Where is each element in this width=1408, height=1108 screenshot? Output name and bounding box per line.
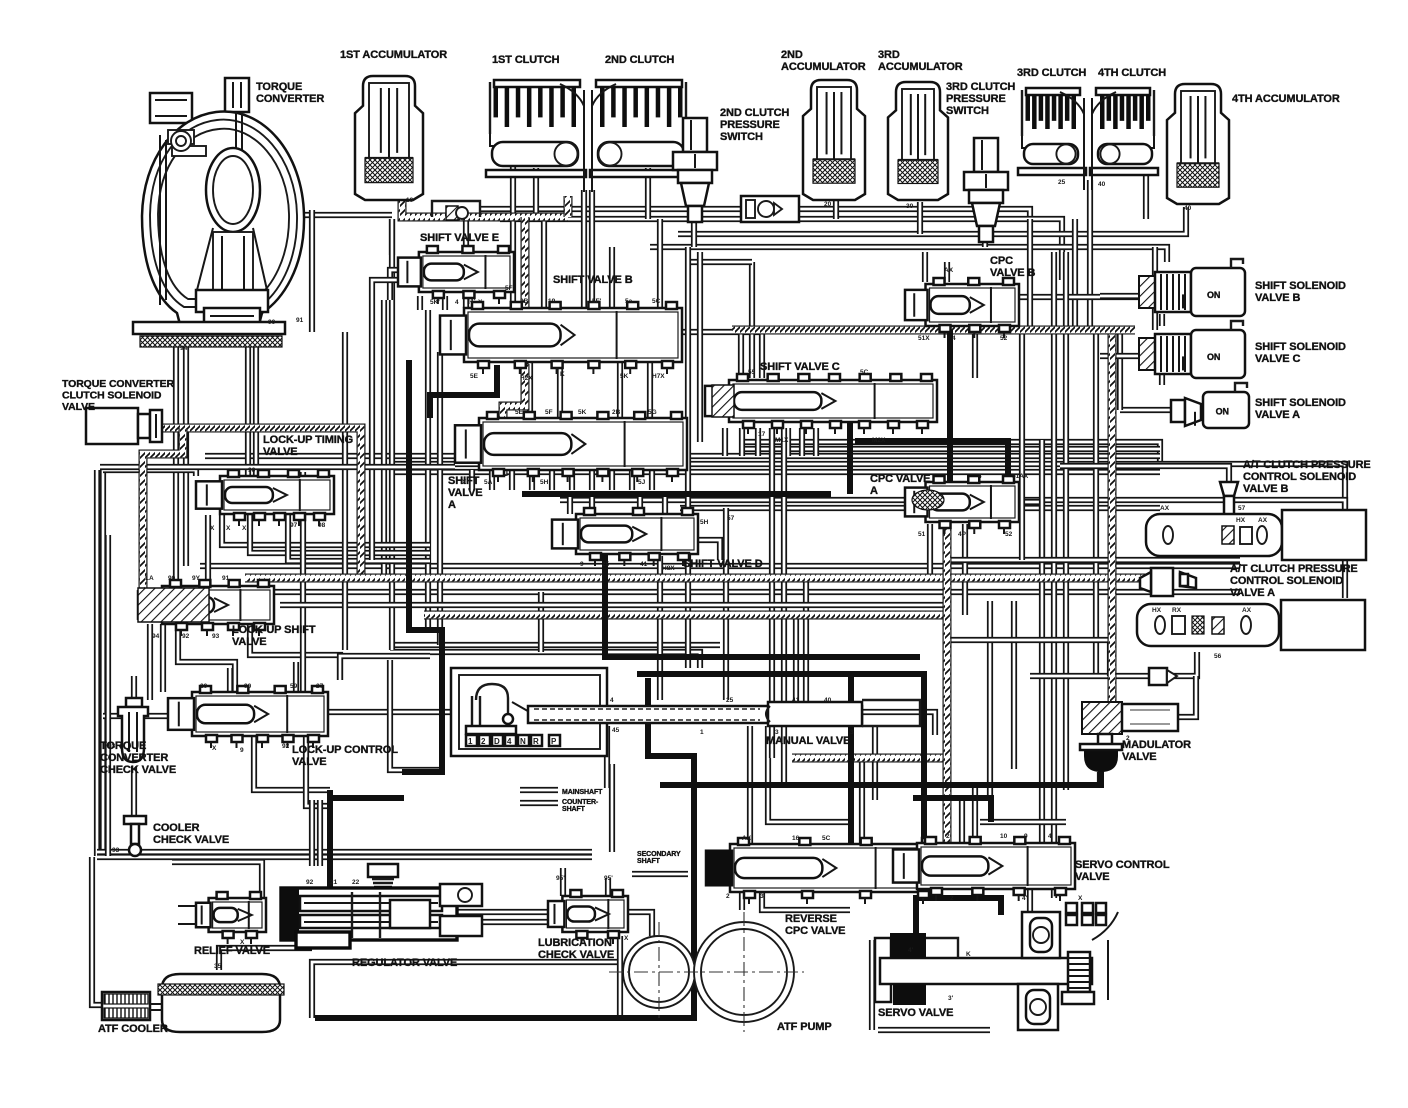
wire mid bundle 6 [680, 505, 1160, 511]
svg-text:17: 17 [758, 431, 766, 438]
wire rev cpc bottom 1 [739, 892, 745, 910]
wire TC down 2 [183, 345, 189, 566]
AT clutch pressure control solenoid valve A connectors [1151, 568, 1173, 596]
svg-text:52: 52 [1005, 531, 1013, 538]
svg-text:5H: 5H [700, 519, 709, 526]
svg-text:HX: HX [1236, 517, 1246, 524]
svg-text:51X: 51X [918, 335, 930, 342]
svg-text:5H: 5H [540, 479, 549, 486]
svg-text:4: 4 [455, 299, 459, 306]
wire lockup loop 4 [250, 624, 340, 680]
svg-text:AX: AX [944, 267, 954, 274]
wire D top stub 3 [637, 494, 643, 514]
wire left drop x384 [381, 300, 387, 580]
connector on solenoid A line [1149, 668, 1167, 685]
wire hatched lower trunk [424, 611, 946, 620]
wire atf pump left vert [617, 936, 623, 1018]
svg-text:R: R [533, 737, 539, 746]
servo control valve [917, 843, 1075, 889]
svg-text:5K: 5K [578, 409, 587, 416]
wire mid bundle 2 [205, 453, 1160, 459]
svg-text:41: 41 [640, 561, 648, 568]
wire lockup timing down 1 [222, 515, 430, 545]
wire servo region v x862 [859, 758, 865, 845]
wire mid y605 [280, 602, 950, 608]
wire D top stub 2 [589, 494, 595, 514]
wire mid bundle 3 [390, 464, 1345, 508]
shift solenoid valve A [1171, 400, 1185, 422]
svg-text:5a: 5a [625, 298, 633, 305]
svg-text:9: 9 [240, 747, 244, 754]
wire hatched solenoid line [160, 428, 361, 578]
wire CPC B bottom [972, 326, 978, 378]
wire sol C x stub [1159, 373, 1165, 385]
AT clutch pressure control solenoid valve A body [1137, 604, 1279, 646]
manual valve shift lever [472, 696, 480, 732]
wire box around manual b [609, 764, 615, 852]
wire CPC B right link [1019, 294, 1139, 300]
svg-text:1: 1 [468, 737, 473, 746]
wire drop x544 [541, 213, 547, 308]
svg-text:AX: AX [742, 835, 752, 842]
wire servo ctl stub 2 [972, 786, 978, 843]
svg-text:AX: AX [1242, 607, 1252, 614]
wire right drop x1075 [1072, 219, 1078, 330]
wire TC check valve down [131, 766, 137, 852]
wire D top stub 4 [662, 494, 668, 514]
lubrication check valve [562, 896, 628, 932]
svg-text:3RD CLUTCH: 3RD CLUTCH [1017, 67, 1086, 79]
svg-text:45: 45 [612, 727, 620, 734]
wire thick C down [847, 415, 853, 494]
svg-text:3': 3' [948, 995, 954, 1002]
wire lube stub 1 [560, 868, 566, 896]
wire thick regulator drop [327, 790, 333, 895]
wire clutch drop to shift valve B [463, 219, 469, 308]
wire center tall x700 [697, 252, 703, 442]
wire thick CPC A feed h [855, 441, 1008, 478]
svg-text:SHIFT VALVE B: SHIFT VALVE B [553, 274, 633, 286]
svg-text:20: 20 [824, 201, 832, 208]
svg-text:16: 16 [792, 835, 800, 842]
wire lube stub 2 [605, 878, 611, 896]
wire hatched solenoid branch [143, 428, 183, 600]
svg-text:40: 40 [1184, 205, 1192, 212]
wire CPC B top stub [944, 262, 950, 282]
wire servo riser x990 [987, 601, 993, 795]
svg-text:4': 4' [1022, 895, 1028, 902]
wire regulator top pair a [309, 800, 315, 866]
svg-text:M2X: M2X [872, 437, 886, 444]
wire top trunk 3 [650, 247, 1167, 262]
torque converter clutch solenoid valve [86, 408, 138, 444]
svg-text:N: N [520, 737, 526, 746]
wire bottom elbow [312, 962, 620, 1018]
svg-text:10: 10 [1000, 833, 1008, 840]
svg-text:25: 25 [602, 561, 610, 568]
wire thick manual to pump bottom [315, 678, 694, 1018]
2nd clutch pressure switch [683, 118, 707, 152]
wire box around manual a [390, 660, 445, 770]
svg-text:96: 96 [248, 467, 256, 474]
svg-text:ON: ON [1207, 290, 1220, 300]
wire C down pair b [781, 428, 787, 785]
wire hatched accumulator line [402, 196, 568, 217]
wire A bottom stub 3 [509, 470, 515, 490]
svg-text:21: 21 [330, 879, 338, 886]
wire rev cpc bottom 2 [762, 892, 850, 910]
wire mid bundle 4 [390, 469, 1160, 475]
wire lockup control down 2 [306, 736, 330, 806]
wire A bottom stub 7 [589, 470, 595, 490]
wire servo riser x1014 [1011, 601, 1017, 769]
wire TC long right drop [342, 332, 348, 650]
svg-text:95': 95' [604, 875, 613, 882]
svg-text:27: 27 [316, 683, 324, 690]
wire TC down 1 [176, 345, 200, 600]
svg-text:19: 19 [406, 197, 414, 204]
wire A bottom stub 5 [549, 470, 555, 490]
wire 2nd accumulator stem [833, 200, 839, 219]
wire thick manual top [637, 674, 924, 843]
wire right mid y560 [950, 557, 1240, 563]
wire funnel B up [1060, 466, 1229, 482]
lock-up timing valve [220, 476, 334, 514]
wire lockup timing down 3 [288, 515, 430, 561]
wire thick y785 [660, 770, 1101, 785]
wire mid bundle 5 [560, 500, 1345, 598]
wire lockup timing long drop [300, 472, 306, 736]
shift solenoid valve B [1139, 276, 1155, 308]
wire manual down 3 [768, 726, 850, 822]
wire servo region v x875 [872, 726, 878, 800]
svg-text:97: 97 [290, 522, 298, 529]
wire CPC A bottom 2 [962, 524, 968, 615]
wire lockup control top 1 [227, 668, 233, 692]
wire C bottom stub 6 [799, 428, 805, 456]
svg-text:AX: AX [1258, 517, 1268, 524]
svg-text:SERVO VALVE: SERVO VALVE [878, 1007, 953, 1019]
torque converter TC [225, 78, 249, 112]
wire check ball to trunk [799, 209, 1030, 219]
svg-text:M1X: M1X [775, 437, 789, 444]
wire lower bundle 1 [200, 563, 1240, 569]
wire hatched to valve A port 5E [503, 364, 525, 476]
wire A bottom stub 2 [489, 470, 495, 490]
wire thick D down [605, 552, 920, 657]
svg-text:4: 4 [1048, 833, 1052, 840]
wire relief elbow [172, 862, 262, 898]
wire right tall x1054 [1051, 252, 1057, 898]
svg-text:57: 57 [1238, 505, 1246, 512]
wire sol C left link [1100, 353, 1139, 359]
wire E left stub [390, 270, 404, 300]
wire A bottom stub 8 [609, 470, 615, 490]
svg-text:5J: 5J [638, 479, 646, 486]
svg-text:20: 20 [200, 683, 208, 690]
wire long left horizontal [100, 464, 455, 470]
wire manual right [862, 712, 935, 735]
wire hatched servo vertical [943, 516, 952, 845]
wire E down left [372, 280, 398, 300]
svg-text:25: 25 [1058, 179, 1066, 186]
svg-text:RX: RX [1172, 607, 1182, 614]
wire hatched manual trunk [792, 754, 947, 763]
wire right drop x1090 [1087, 234, 1093, 330]
wire center tall x688 [685, 247, 691, 668]
wire CPC A bottom 1 [927, 524, 933, 578]
shift solenoid valve C [1139, 338, 1155, 370]
CPC valve A [926, 482, 1019, 522]
wire lockup loop 1 [147, 624, 153, 700]
wire 1st clutch drop [533, 168, 539, 213]
svg-text:51AX: 51AX [1012, 473, 1029, 480]
wire manual up 2 [803, 578, 809, 706]
wire lockup control left link [103, 713, 168, 719]
wire mid y640 right [950, 640, 1110, 676]
wire mid bundle 1b [740, 446, 1160, 452]
svg-text:2: 2 [481, 737, 486, 746]
svg-text:90: 90 [244, 683, 252, 690]
svg-text:4P: 4P [958, 531, 967, 538]
torque converter base plate [133, 322, 285, 334]
svg-text:22: 22 [352, 879, 360, 886]
svg-text:H7X: H7X [652, 373, 665, 380]
wire pan stem [219, 948, 312, 970]
svg-text:HX: HX [1152, 607, 1162, 614]
ATF pump [623, 936, 695, 1008]
wire right drop x1155 [1152, 247, 1158, 330]
svg-text:RELIEF VALVE: RELIEF VALVE [194, 945, 270, 957]
svg-text:93: 93 [112, 847, 120, 854]
cooler check valve [124, 816, 146, 824]
wire B right elbow [682, 332, 762, 378]
wire C bottom stub 7 [813, 428, 819, 456]
wire hatched main trunk [245, 574, 1148, 583]
lock-up control valve [192, 692, 328, 736]
wire A bottom stub 6 [569, 470, 575, 490]
wire servo bottom h [878, 1027, 990, 1033]
svg-text:H2X: H2X [520, 375, 533, 382]
wire C top port 2 [749, 262, 755, 378]
wire drop x660 [657, 219, 663, 308]
wire E bottom stub 2 [442, 296, 448, 310]
modulator valve [1082, 702, 1122, 734]
svg-text:SHIFT VALVE D: SHIFT VALVE D [683, 558, 763, 570]
shift valve A [479, 418, 687, 470]
shift valve E [419, 252, 514, 292]
svg-text:2: 2 [950, 895, 954, 902]
wire y592 to y652 link [538, 592, 544, 652]
svg-text:92: 92 [306, 879, 314, 886]
wire right y822 [980, 819, 1066, 825]
wire right tall x1042 [1039, 440, 1045, 856]
svg-text:4: 4 [978, 473, 982, 480]
svg-text:2B: 2B [520, 298, 529, 305]
svg-text:K: K [966, 951, 971, 958]
svg-text:3: 3 [850, 729, 854, 736]
wire servo left outline [869, 940, 875, 1030]
wire 4th clutch port drop [1143, 172, 1149, 219]
wire check ball bump to 2nd check ball [480, 206, 741, 212]
wire countershaft pointer [520, 800, 558, 806]
svg-text:35: 35 [214, 963, 222, 970]
wire servo ctl bottom [1027, 890, 1033, 915]
wire top left drop x372 [369, 300, 375, 560]
manual valve spool [528, 706, 862, 723]
wire manual up 1 [793, 615, 799, 706]
wire left box top [103, 470, 196, 476]
svg-text:LUBRICATIONCHECK VALVE: LUBRICATIONCHECK VALVE [538, 937, 614, 961]
wire top trunk 2 [678, 207, 1186, 234]
wire 1st-2nd clutch center drop b [589, 190, 595, 308]
svg-text:X: X [462, 479, 467, 486]
manual valve position indicator [466, 735, 477, 746]
wire sol A left link [1120, 407, 1171, 413]
svg-text:56: 56 [1214, 653, 1222, 660]
wire lockup timing left drop [205, 515, 211, 586]
svg-text:25: 25 [726, 697, 734, 704]
wire C bottom stub 4 [769, 428, 775, 456]
wire right v x1022 [1019, 330, 1025, 560]
wire C bottom stub 3 [755, 428, 761, 456]
wire 2nd pressure switch drop [691, 222, 697, 247]
wire regulator top pair b [317, 800, 323, 866]
wire secondary shaft pointer [632, 871, 688, 877]
svg-text:X: X [226, 525, 231, 532]
wire left vertical x115 [105, 535, 111, 856]
wire thick CPC A feed v [947, 330, 953, 482]
svg-text:SHIFT VALVE C: SHIFT VALVE C [760, 361, 840, 373]
wire B-A link 1 [527, 362, 533, 418]
wire B-A link 2 [557, 362, 563, 418]
svg-text:93: 93 [212, 633, 220, 640]
wire left drop x440 [437, 352, 443, 645]
shift valve B [464, 308, 682, 362]
wire thick mid horizontal [522, 491, 831, 497]
wire left box bottom b [97, 854, 592, 860]
wire left box v2 [100, 470, 106, 856]
wire D to right [698, 540, 720, 560]
svg-text:X: X [210, 525, 215, 532]
wire C down pair a [769, 428, 775, 758]
AT clutch pressure control solenoid valve B body [1146, 514, 1282, 556]
1st accumulator A1 [355, 76, 423, 200]
wire lower bundle 2 [150, 589, 1240, 595]
wire A bottom stub 1 [469, 470, 475, 490]
svg-text:MAINSHAFT: MAINSHAFT [562, 789, 603, 796]
svg-text:ON: ON [1216, 406, 1229, 416]
svg-text:57: 57 [727, 515, 735, 522]
svg-text:5C: 5C [860, 369, 869, 376]
svg-text:ATF PUMP: ATF PUMP [777, 1021, 832, 1033]
wire thick B-A elbow [430, 365, 497, 418]
svg-text:H8X: H8X [662, 565, 675, 572]
svg-text:94: 94 [180, 345, 188, 352]
wire lockup control right [328, 709, 451, 715]
wire lockup control right 2 [340, 656, 430, 680]
wire thick servo link [916, 898, 1001, 938]
wire thick y798 [913, 798, 991, 822]
svg-text:92: 92 [282, 743, 290, 750]
svg-text:9: 9 [580, 561, 584, 568]
svg-text:1: 1 [700, 729, 704, 736]
svg-text:51: 51 [918, 531, 926, 538]
wire regulator right link a [458, 909, 548, 915]
svg-text:2: 2 [726, 893, 730, 900]
svg-text:REGULATOR VALVE: REGULATOR VALVE [352, 957, 457, 969]
svg-text:9: 9 [1024, 833, 1028, 840]
svg-text:4TH ACCUMULATOR: 4TH ACCUMULATOR [1232, 93, 1340, 105]
wire D top stub 1 [567, 494, 573, 514]
svg-text:5E: 5E [470, 373, 479, 380]
wire C bottom stub 5 [785, 428, 791, 456]
shift valve D [576, 514, 698, 554]
svg-text:K: K [560, 371, 565, 378]
wire left down to cooler [92, 857, 102, 1005]
torque converter check valve [126, 698, 142, 707]
wire A bottom stub 9 [629, 470, 635, 490]
wire lockup loop 3 [178, 624, 235, 692]
svg-text:5C: 5C [822, 835, 831, 842]
svg-text:X: X [212, 745, 217, 752]
wire drop x612 [609, 247, 615, 308]
wire 3rd-4th clutch center drop [1087, 180, 1093, 234]
wire C bottom stub 2 [739, 428, 745, 456]
ATF cooler core [102, 992, 150, 1020]
wire E top link [389, 219, 395, 255]
check ball valve 19 [432, 201, 480, 217]
shift valve C [729, 380, 937, 422]
wire C top port 1 [738, 332, 744, 378]
wire hatched clutch riser [564, 196, 573, 217]
wire lockup timing down 2 [250, 515, 430, 553]
svg-text:3: 3 [760, 893, 764, 900]
wire right tall x1096 [1093, 330, 1099, 676]
svg-text:5A: 5A [484, 479, 493, 486]
svg-text:5G: 5G [648, 409, 657, 416]
svg-text:92: 92 [182, 633, 190, 640]
wire lube right elbow [628, 912, 652, 936]
servo valve grid boxes [1066, 903, 1077, 913]
wire at cpc funnel stem [1226, 502, 1232, 516]
reverse CPC valve [730, 844, 938, 892]
svg-text:30: 30 [906, 203, 914, 210]
wire modulator bowl stem [1097, 772, 1103, 785]
wire C top feed h [688, 259, 752, 265]
wire left drop x392 [389, 219, 395, 650]
svg-text:98: 98 [318, 522, 326, 529]
wire left box bottom a [97, 849, 592, 855]
relief valve [209, 898, 266, 932]
svg-text:X: X [242, 525, 247, 532]
svg-text:41: 41 [792, 697, 800, 704]
3rd accumulator A3 [888, 82, 948, 200]
svg-text:ON: ON [1207, 352, 1220, 362]
check ball valve 20 [741, 196, 799, 222]
lock-up shift valve [162, 586, 274, 624]
svg-text:P: P [551, 737, 557, 746]
wire A bottom stub 4 [529, 470, 535, 490]
wire lower bundle 3 [390, 642, 720, 648]
svg-text:19: 19 [548, 298, 556, 305]
svg-text:5E: 5E [515, 409, 524, 416]
wire hatched to valve B port 19 [521, 217, 530, 330]
svg-text:5K': 5K' [430, 299, 440, 306]
svg-text:5F': 5F' [592, 298, 602, 305]
wire sol A elbow [1117, 330, 1123, 410]
wire left box v1 [94, 470, 100, 856]
